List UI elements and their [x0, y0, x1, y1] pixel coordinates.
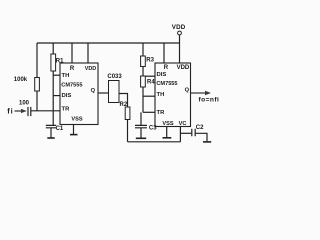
svg-text:Q: Q [185, 87, 190, 93]
capacitor C033 (box) [109, 81, 120, 103]
svg-text:C2: C2 [196, 125, 204, 131]
svg-text:C3: C3 [149, 126, 157, 132]
wire C3 lead to ground [140, 128, 142, 138]
svg-text:VSS: VSS [71, 117, 82, 123]
wire VSS1 lead [73, 125, 75, 135]
resistor R2 [125, 107, 130, 120]
resistor R1 [51, 54, 56, 71]
wire R2 down to bottom rail [127, 120, 129, 142]
svg-text:R4: R4 [147, 80, 155, 86]
svg-text:DIS: DIS [157, 72, 167, 78]
svg-text:VDD: VDD [177, 65, 190, 71]
VDD terminal [178, 31, 182, 35]
wire C1 lead to ground [50, 128, 52, 138]
wire TH1 [53, 74, 60, 76]
svg-text:CM7555: CM7555 [156, 81, 177, 87]
wire TR1 / fi line [31, 110, 60, 112]
wire VC lead [179, 127, 181, 142]
svg-text:C033: C033 [107, 74, 122, 80]
ground (C3) [136, 137, 146, 139]
svg-text:VC: VC [179, 121, 187, 127]
wire VC branch to C2 [180, 132, 191, 134]
svg-text:R2: R2 [120, 102, 128, 108]
wire TH2 [143, 95, 155, 97]
svg-text:fi: fi [7, 107, 13, 116]
svg-text:VSS: VSS [162, 121, 173, 127]
svg-text:TR: TR [62, 107, 71, 113]
wire TR2 [143, 111, 155, 113]
svg-text:fo=nfi: fo=nfi [199, 97, 220, 104]
resistor R3 [141, 56, 146, 67]
ground (C2) [203, 141, 211, 143]
op IC2 CM7555 box [155, 63, 191, 127]
svg-text:100k: 100k [14, 77, 28, 83]
ground (IC2 VSS) [163, 137, 172, 139]
capacitor C3 [135, 125, 147, 127]
svg-text:Q: Q [91, 88, 96, 94]
svg-text:TR: TR [157, 110, 166, 116]
wire chain to C3 [140, 112, 142, 125]
wire DIS2 [143, 75, 155, 77]
wire C2 to ground [195, 133, 207, 141]
svg-text:CM7555: CM7555 [61, 82, 82, 88]
wire top rail [37, 42, 180, 44]
wire R3 chain vertical [142, 43, 144, 112]
wire IC1 VDD pin drop [87, 43, 89, 63]
svg-text:R: R [70, 66, 75, 72]
svg-text:TH: TH [62, 73, 70, 79]
wire IC1 R pin drop [71, 43, 73, 63]
ground (C1) [47, 137, 54, 139]
capacitor C2 [192, 129, 195, 137]
wire DIS1 [53, 95, 60, 97]
wire VSS2 lead [166, 127, 168, 138]
wire Q1 to C033 [98, 92, 109, 94]
op IC1 CM7555 box [60, 63, 98, 125]
svg-text:C1: C1 [56, 126, 64, 132]
ground (IC1 VSS) [70, 134, 78, 136]
wire bottom rail R2 to VC [128, 141, 181, 143]
resistor 100k [35, 78, 40, 92]
svg-text:DIS: DIS [62, 93, 72, 99]
capacitor C1 [46, 125, 56, 127]
wire IC2 R pin drop [163, 43, 165, 63]
svg-text:VDD: VDD [172, 24, 186, 31]
svg-text:R3: R3 [146, 58, 154, 64]
resistor R4 [141, 76, 146, 87]
wire left branch down to TR node [36, 43, 38, 111]
svg-text:R: R [164, 65, 169, 71]
svg-text:TH: TH [157, 92, 165, 98]
svg-text:100: 100 [19, 101, 30, 107]
wire IC2 VDD drop from terminal [179, 35, 181, 63]
wire R1 branch vertical [52, 43, 54, 125]
svg-text:VDD: VDD [85, 66, 96, 72]
wire C033 out to R2 [119, 94, 128, 108]
capacitor 100 (input coupling) [28, 107, 31, 116]
node fo=nfi output arrow [191, 92, 206, 94]
